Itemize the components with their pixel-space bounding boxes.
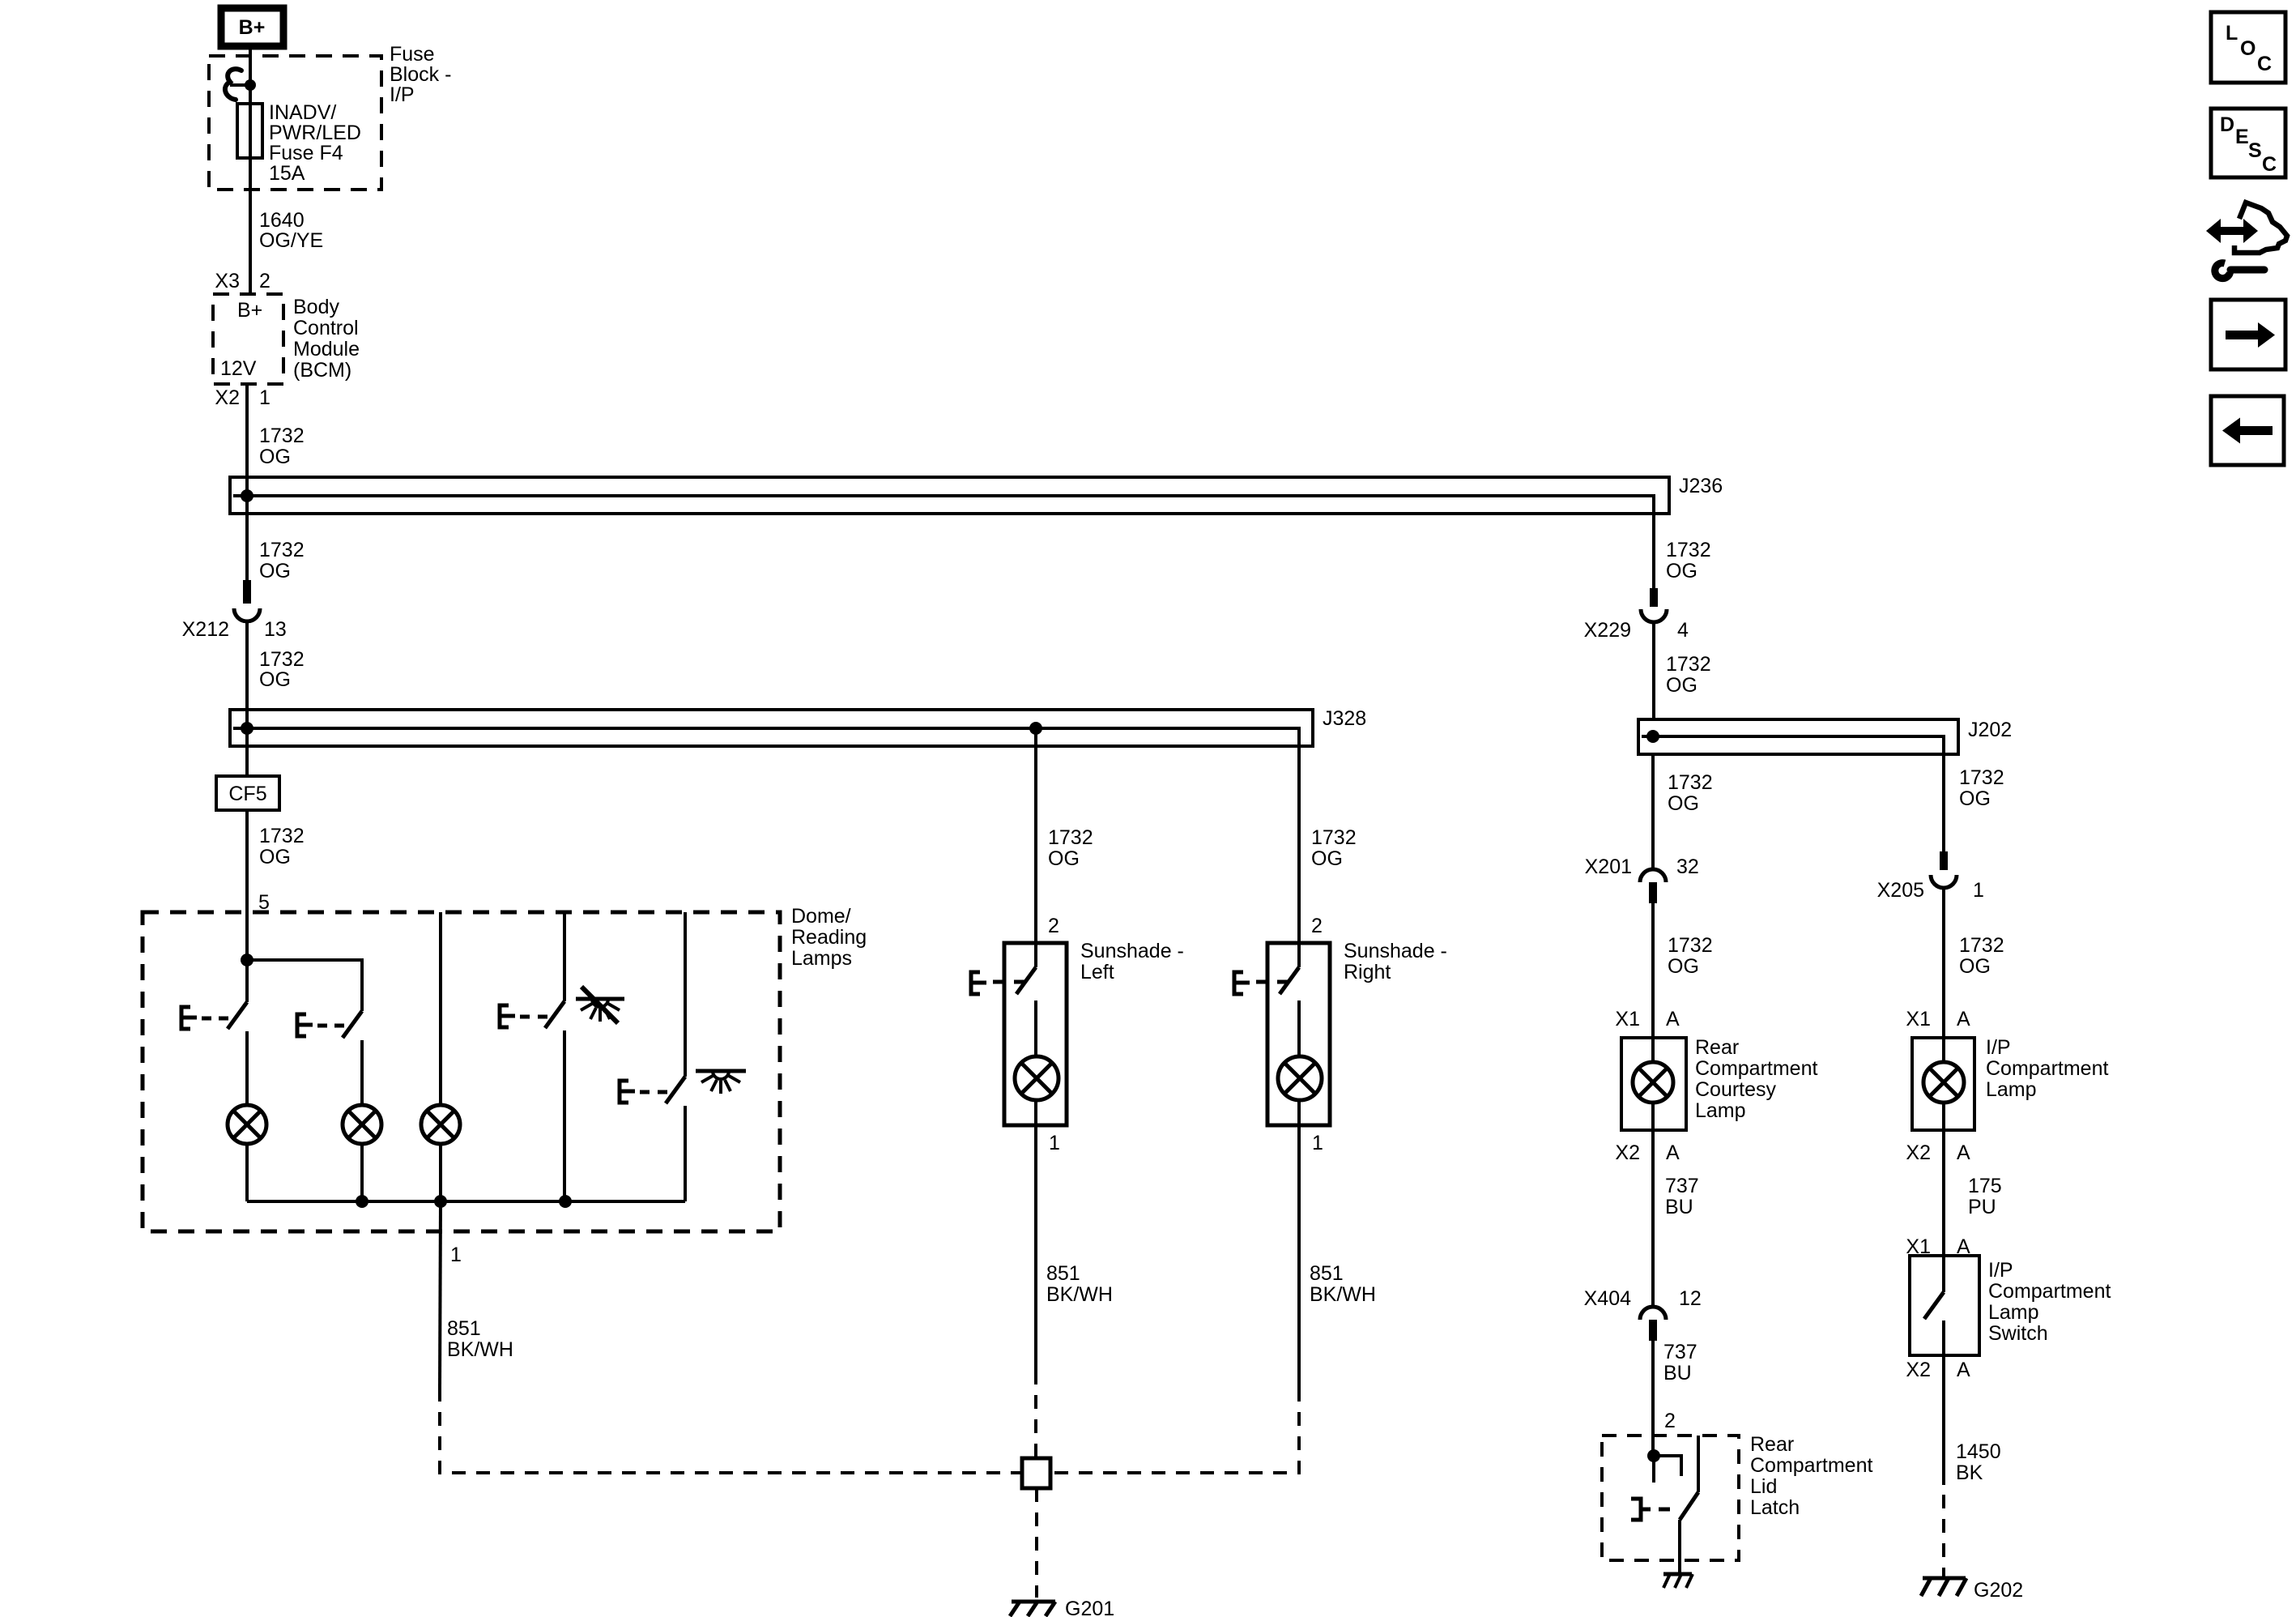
svg-text:Fuse: Fuse: [390, 43, 435, 66]
dashed wire splice to G201: [1035, 1488, 1038, 1598]
icon box arrow left: [2211, 396, 2284, 465]
svg-text:X2: X2: [1906, 1141, 1931, 1164]
pin X1 A IP lamp: [1906, 1008, 1970, 1030]
svg-text:O: O: [2240, 37, 2256, 60]
rear compartment courtesy lamp bulb: [1633, 1038, 1673, 1130]
connector X229: [1641, 588, 1667, 622]
svg-text:851: 851: [1310, 1262, 1344, 1285]
label 1732 OG above X205: [1959, 766, 2004, 810]
icon harness car outline: [2234, 203, 2287, 253]
connector X404: [1640, 1307, 1666, 1341]
wire branch lamp 3: [439, 912, 442, 1106]
junction dot main on J328: [241, 722, 253, 735]
svg-text:BK/WH: BK/WH: [447, 1338, 513, 1361]
switch S3 dome with off indicator: [500, 1001, 564, 1028]
svg-text:Sunshade -: Sunshade -: [1080, 940, 1184, 962]
svg-text:OG: OG: [1048, 847, 1080, 870]
wire S1 to lamp 1: [245, 1031, 249, 1106]
wire branch switch 3: [563, 912, 566, 1001]
wire 1732 OG X229 to J202: [1652, 621, 1655, 719]
label X229 4: [1584, 619, 1689, 642]
pin X2 A rear lamp: [1615, 1141, 1680, 1164]
svg-text:Right: Right: [1344, 961, 1391, 983]
label INADV/PWR/LED Fuse F4 15A: [269, 101, 361, 185]
dome bottom rail wire: [247, 1200, 685, 1203]
lamp sunshade right: [1278, 1056, 1322, 1100]
svg-text:Body: Body: [293, 296, 339, 318]
latch switch: [1631, 1436, 1698, 1574]
svg-text:E: E: [2235, 126, 2249, 148]
svg-text:OG: OG: [1666, 560, 1698, 582]
svg-text:G201: G201: [1065, 1598, 1114, 1617]
svg-text:12: 12: [1679, 1287, 1702, 1310]
svg-text:1732: 1732: [259, 648, 305, 671]
pin X1 A IP switch: [1906, 1235, 1970, 1258]
svg-text:C: C: [2257, 53, 2272, 75]
power symbol B+: [221, 8, 283, 46]
svg-text:X2: X2: [1906, 1359, 1931, 1381]
wire B+ to fuse: [249, 49, 252, 104]
junction dot on J202: [1646, 730, 1659, 743]
pin X1 A rear lamp: [1615, 1008, 1680, 1030]
label J202: [1968, 719, 2012, 741]
svg-text:G202: G202: [1974, 1579, 2023, 1602]
svg-text:A: A: [1957, 1141, 1970, 1164]
svg-text:Compartment: Compartment: [1986, 1057, 2108, 1080]
label IP Compartment Lamp: [1986, 1036, 2108, 1101]
junction dot rail lamp2: [356, 1195, 368, 1208]
wire lamp1 to bottom rail: [245, 1144, 249, 1201]
label Sunshade - Right: [1344, 940, 1447, 983]
svg-text:737: 737: [1663, 1341, 1698, 1363]
wire lamp2 to bottom rail: [360, 1144, 364, 1201]
pin X2 A IP switch: [1906, 1359, 1970, 1381]
label Fuse Block - I/P: [390, 43, 451, 106]
label X212 13: [182, 618, 287, 641]
svg-text:1732: 1732: [1666, 653, 1711, 676]
label 1732 OG below J236: [259, 539, 305, 582]
svg-text:OG: OG: [1668, 955, 1699, 978]
fuse F4 15A: [237, 104, 262, 158]
pin 1 sunshade right: [1312, 1132, 1323, 1154]
splice bus J328: [230, 710, 1313, 746]
wire branch switch 4: [684, 912, 687, 1077]
svg-text:OG: OG: [259, 446, 291, 468]
wire 1640 OG/YE: [249, 158, 252, 294]
pin 1 sunshade left: [1049, 1132, 1060, 1154]
ground G202: [1921, 1578, 1966, 1596]
body control module BCM dashed box: [213, 294, 283, 384]
svg-text:851: 851: [447, 1317, 481, 1340]
svg-text:1732: 1732: [259, 825, 305, 847]
label 1732 OG below CF5: [259, 825, 305, 868]
svg-text:X205: X205: [1877, 879, 1924, 902]
wire lamp to pin1 sunshade right: [1297, 1100, 1301, 1388]
svg-text:(BCM): (BCM): [293, 359, 351, 382]
svg-text:Latch: Latch: [1750, 1496, 1800, 1519]
svg-text:J202: J202: [1968, 719, 2012, 741]
wire 737 BU rear lamp to X404: [1651, 1130, 1655, 1307]
svg-text:BK/WH: BK/WH: [1046, 1283, 1113, 1306]
svg-text:A: A: [1666, 1141, 1680, 1164]
icon wrench: [2215, 263, 2264, 279]
svg-text:OG: OG: [1959, 787, 1991, 810]
svg-text:32: 32: [1676, 855, 1699, 878]
indicator illuminated icon: [696, 1071, 746, 1094]
splice bus J202: [1638, 719, 1958, 754]
svg-text:J328: J328: [1323, 707, 1366, 730]
wire 737 BU X404 to latch: [1651, 1341, 1655, 1456]
sunshade right box: [1267, 943, 1330, 1125]
svg-text:1732: 1732: [1311, 826, 1357, 849]
wire 1732 OG to sunshade left: [1034, 728, 1037, 943]
wire J202 to X201: [1651, 754, 1655, 869]
svg-text:BK/WH: BK/WH: [1310, 1283, 1376, 1306]
IP compartment lamp box: [1912, 1038, 1974, 1130]
svg-text:1640: 1640: [259, 209, 305, 232]
svg-text:BK: BK: [1956, 1461, 1983, 1484]
svg-text:1: 1: [450, 1244, 462, 1266]
svg-text:2: 2: [259, 270, 270, 292]
dashed ground wire dome: [440, 1388, 1022, 1473]
svg-text:A: A: [1666, 1008, 1680, 1030]
svg-text:I/P: I/P: [1988, 1259, 2013, 1282]
switch sunshade left: [971, 943, 1036, 994]
svg-text:X2: X2: [1615, 1141, 1640, 1164]
label 851 BK/WH dome: [447, 1317, 513, 1361]
label J236: [1679, 475, 1723, 497]
label X201 32: [1585, 855, 1699, 878]
svg-text:X3: X3: [215, 270, 240, 292]
svg-text:Sunshade -: Sunshade -: [1344, 940, 1447, 962]
pin 2 sunshade right: [1311, 915, 1323, 937]
svg-text:737: 737: [1665, 1175, 1699, 1197]
svg-text:1732: 1732: [1666, 539, 1711, 561]
svg-text:Dome/: Dome/: [791, 905, 851, 928]
svg-text:Compartment: Compartment: [1750, 1454, 1872, 1477]
wire dome internal branch to switch 2: [247, 960, 362, 1011]
pin X2 1: [215, 386, 270, 409]
svg-text:12V: 12V: [220, 357, 257, 380]
wire J236 corner to X229: [1652, 514, 1655, 588]
label G201: [1065, 1598, 1114, 1617]
wire 1450 BK: [1942, 1355, 1945, 1485]
label Sunshade - Left: [1080, 940, 1184, 983]
svg-text:Switch: Switch: [1988, 1322, 2048, 1345]
IP compartment lamp switch: [1924, 1256, 1944, 1355]
label B+ pin: [237, 299, 262, 322]
svg-text:Control: Control: [293, 317, 359, 339]
svg-text:Rear: Rear: [1695, 1036, 1739, 1059]
svg-text:Lamps: Lamps: [791, 947, 852, 970]
svg-text:X404: X404: [1584, 1287, 1631, 1310]
svg-text:1: 1: [1312, 1132, 1323, 1154]
svg-text:1: 1: [1973, 879, 1984, 902]
wire 1732 OG to sunshade right: [1297, 746, 1301, 943]
connector X205: [1931, 851, 1957, 888]
switch S1 dome: [181, 960, 247, 1029]
svg-text:X1: X1: [1615, 1008, 1640, 1030]
svg-text:Compartment: Compartment: [1695, 1057, 1817, 1080]
svg-text:15A: 15A: [269, 162, 305, 185]
svg-text:Compartment: Compartment: [1988, 1280, 2111, 1303]
icon box arrow right: [2211, 300, 2285, 369]
svg-text:OG: OG: [1959, 955, 1991, 978]
pin X3 2: [215, 270, 270, 292]
label Dome/Reading Lamps: [791, 905, 867, 970]
svg-text:PWR/LED: PWR/LED: [269, 122, 361, 144]
svg-text:Left: Left: [1080, 961, 1114, 983]
label 1732 OG above X229: [1666, 539, 1711, 582]
svg-text:OG: OG: [1311, 847, 1343, 870]
svg-text:Lamp: Lamp: [1986, 1078, 2037, 1101]
label 737 BU: [1665, 1175, 1699, 1218]
svg-text:1732: 1732: [1668, 934, 1713, 957]
svg-text:1: 1: [259, 386, 270, 409]
pin X2 A IP lamp: [1906, 1141, 1970, 1164]
wire switch to lamp sunshade left: [1034, 1000, 1037, 1056]
label 12V pin: [220, 357, 257, 380]
wire dome output pin 1: [440, 1201, 441, 1388]
ground G201: [1010, 1602, 1055, 1616]
svg-text:OG: OG: [259, 560, 291, 582]
junction dot dome feed: [241, 954, 253, 966]
rear compartment courtesy lamp box: [1621, 1038, 1686, 1130]
in-line fuse CF5: [216, 776, 279, 810]
svg-text:4: 4: [1677, 619, 1689, 642]
dashed wire sunshade left to splice: [1034, 1371, 1037, 1458]
indicator not-illuminated icon: [576, 987, 624, 1023]
svg-text:Module: Module: [293, 338, 360, 361]
switch sunshade right: [1234, 943, 1299, 994]
svg-text:I/P: I/P: [390, 83, 415, 106]
svg-text:X229: X229: [1584, 619, 1631, 642]
label Rear Compartment Lid Latch: [1750, 1433, 1872, 1519]
IP compartment lamp bulb: [1923, 1038, 1964, 1130]
svg-text:B+: B+: [237, 299, 262, 322]
label X205 1: [1877, 879, 1984, 902]
label 737 BU lower: [1663, 1341, 1698, 1384]
svg-text:BU: BU: [1663, 1362, 1692, 1384]
label 175 PU: [1968, 1175, 2002, 1218]
wire CF5 to dome lamps: [245, 810, 249, 960]
svg-text:X212: X212: [182, 618, 229, 641]
svg-text:L: L: [2226, 22, 2238, 45]
svg-text:A: A: [1957, 1008, 1970, 1030]
svg-text:Lamp: Lamp: [1988, 1301, 2039, 1324]
label 1732 OG below X201: [1668, 934, 1713, 978]
lamp L3 dome: [421, 1105, 460, 1144]
dashed wire sunshade right to splice: [1050, 1388, 1299, 1473]
switch S4 dome with illuminated indicator: [620, 1077, 685, 1103]
latch striker hook: [1654, 1456, 1681, 1483]
svg-text:1450: 1450: [1956, 1440, 2001, 1463]
svg-text:I/P: I/P: [1986, 1036, 2011, 1059]
svg-text:OG/YE: OG/YE: [259, 229, 323, 252]
svg-text:Reading: Reading: [791, 926, 867, 949]
label Rear Compartment Courtesy Lamp: [1695, 1036, 1817, 1122]
svg-text:BU: BU: [1665, 1196, 1693, 1218]
dome reading lamps dashed box: [143, 912, 780, 1231]
svg-text:1732: 1732: [1959, 766, 2004, 789]
svg-text:1732: 1732: [1959, 934, 2004, 957]
wire lamp3 to bottom rail: [439, 1144, 442, 1201]
svg-text:1732: 1732: [259, 425, 305, 447]
label 1640 OG/YE: [259, 209, 323, 252]
wire X201 to rear lamp: [1651, 903, 1655, 1038]
svg-text:OG: OG: [1666, 674, 1698, 697]
wire 175 PU: [1942, 1130, 1945, 1256]
label G202: [1974, 1579, 2023, 1602]
pin 5: [258, 891, 270, 914]
label X404 12: [1584, 1287, 1702, 1310]
icon box LOC: [2211, 12, 2285, 83]
svg-text:D: D: [2220, 113, 2234, 136]
svg-text:Block -: Block -: [390, 63, 451, 86]
label 1732 OG: [259, 425, 305, 468]
svg-text:B+: B+: [239, 16, 266, 39]
svg-text:X201: X201: [1585, 855, 1632, 878]
svg-text:OG: OG: [259, 668, 291, 691]
wire J202 to X205: [1942, 754, 1945, 851]
wire 1732 OG X212 to J328: [245, 620, 249, 776]
svg-text:851: 851: [1046, 1262, 1080, 1285]
pin 1 dome: [450, 1244, 462, 1266]
junction dot latch: [1647, 1449, 1660, 1462]
label 851 BK/WH sunshade right: [1310, 1262, 1376, 1306]
label 1732 OG sunshade right: [1311, 826, 1357, 870]
wire switch to lamp sunshade right: [1297, 1000, 1301, 1056]
wire S2 to lamp 2: [360, 1040, 364, 1106]
label IP Compartment Lamp Switch: [1988, 1259, 2111, 1345]
label 1732 OG above X201: [1668, 771, 1713, 815]
svg-text:INADV/: INADV/: [269, 101, 336, 124]
wire S4 to bottom rail: [684, 1106, 687, 1201]
connector X201: [1640, 869, 1666, 903]
wire 1732 OG BCM to J236: [245, 384, 249, 580]
wire X205 to IP lamp: [1942, 886, 1945, 1038]
svg-text:Rear: Rear: [1750, 1433, 1794, 1456]
splice node square: [1022, 1458, 1050, 1488]
icon box DESC: [2211, 109, 2285, 177]
svg-text:X1: X1: [1906, 1008, 1931, 1030]
rear compartment lid latch dashed box: [1602, 1436, 1739, 1560]
svg-text:1732: 1732: [259, 539, 305, 561]
junction dot on J236: [241, 489, 253, 502]
lamp sunshade left: [1015, 1056, 1059, 1100]
svg-text:CF5: CF5: [228, 783, 266, 805]
lamp L2 dome: [343, 1105, 381, 1144]
svg-text:13: 13: [264, 618, 287, 641]
label 1732 OG sunshade left: [1048, 826, 1093, 870]
label 1732 OG below X229: [1666, 653, 1711, 697]
svg-text:Lamp: Lamp: [1695, 1099, 1746, 1122]
connector X212: [234, 580, 260, 621]
label 1450 BK: [1956, 1440, 2001, 1484]
svg-text:X2: X2: [215, 386, 240, 409]
switch S2 dome: [297, 1011, 362, 1038]
svg-text:PU: PU: [1968, 1196, 1996, 1218]
IP compartment lamp switch box: [1910, 1256, 1979, 1355]
sunshade left box: [1004, 943, 1067, 1125]
svg-text:175: 175: [1968, 1175, 2002, 1197]
bus feed curl symbol: [225, 69, 250, 100]
splice bus J236: [230, 477, 1669, 514]
svg-text:A: A: [1957, 1359, 1970, 1381]
label 851 BK/WH sunshade left: [1046, 1262, 1113, 1306]
wire S3 to bottom rail: [563, 1030, 566, 1201]
svg-text:OG: OG: [259, 846, 291, 868]
label Body Control Module (BCM): [293, 296, 360, 382]
junction dot rail switch3: [559, 1195, 572, 1208]
junction dot fuse feed: [245, 79, 256, 91]
svg-text:C: C: [2262, 153, 2277, 176]
pin 2 latch: [1664, 1410, 1676, 1432]
svg-text:2: 2: [1311, 915, 1323, 937]
svg-text:Fuse F4: Fuse F4: [269, 142, 343, 164]
ground latch: [1663, 1574, 1693, 1588]
pin 2 sunshade left: [1048, 915, 1059, 937]
junction dot rail lamp3: [434, 1195, 447, 1208]
svg-text:1: 1: [1049, 1132, 1060, 1154]
svg-text:1732: 1732: [1048, 826, 1093, 849]
svg-text:2: 2: [1664, 1410, 1676, 1432]
lamp L1 dome: [228, 1105, 266, 1144]
junction dot sunshade left on J328: [1029, 722, 1042, 735]
label 1732 OG: [259, 648, 305, 691]
svg-text:Lid: Lid: [1750, 1475, 1777, 1498]
svg-text:OG: OG: [1668, 792, 1699, 815]
label J328: [1323, 707, 1366, 730]
svg-text:Courtesy: Courtesy: [1695, 1078, 1777, 1101]
label 1732 OG below X205: [1959, 934, 2004, 978]
wire lamp to pin1 sunshade left: [1034, 1100, 1037, 1371]
svg-text:1732: 1732: [1668, 771, 1713, 794]
svg-text:2: 2: [1048, 915, 1059, 937]
fuse block I/P dashed box: [209, 56, 381, 190]
svg-text:S: S: [2248, 139, 2262, 162]
svg-text:J236: J236: [1679, 475, 1723, 497]
dashed wire to G202: [1942, 1495, 1945, 1577]
icon harness double arrow: [2206, 219, 2258, 243]
